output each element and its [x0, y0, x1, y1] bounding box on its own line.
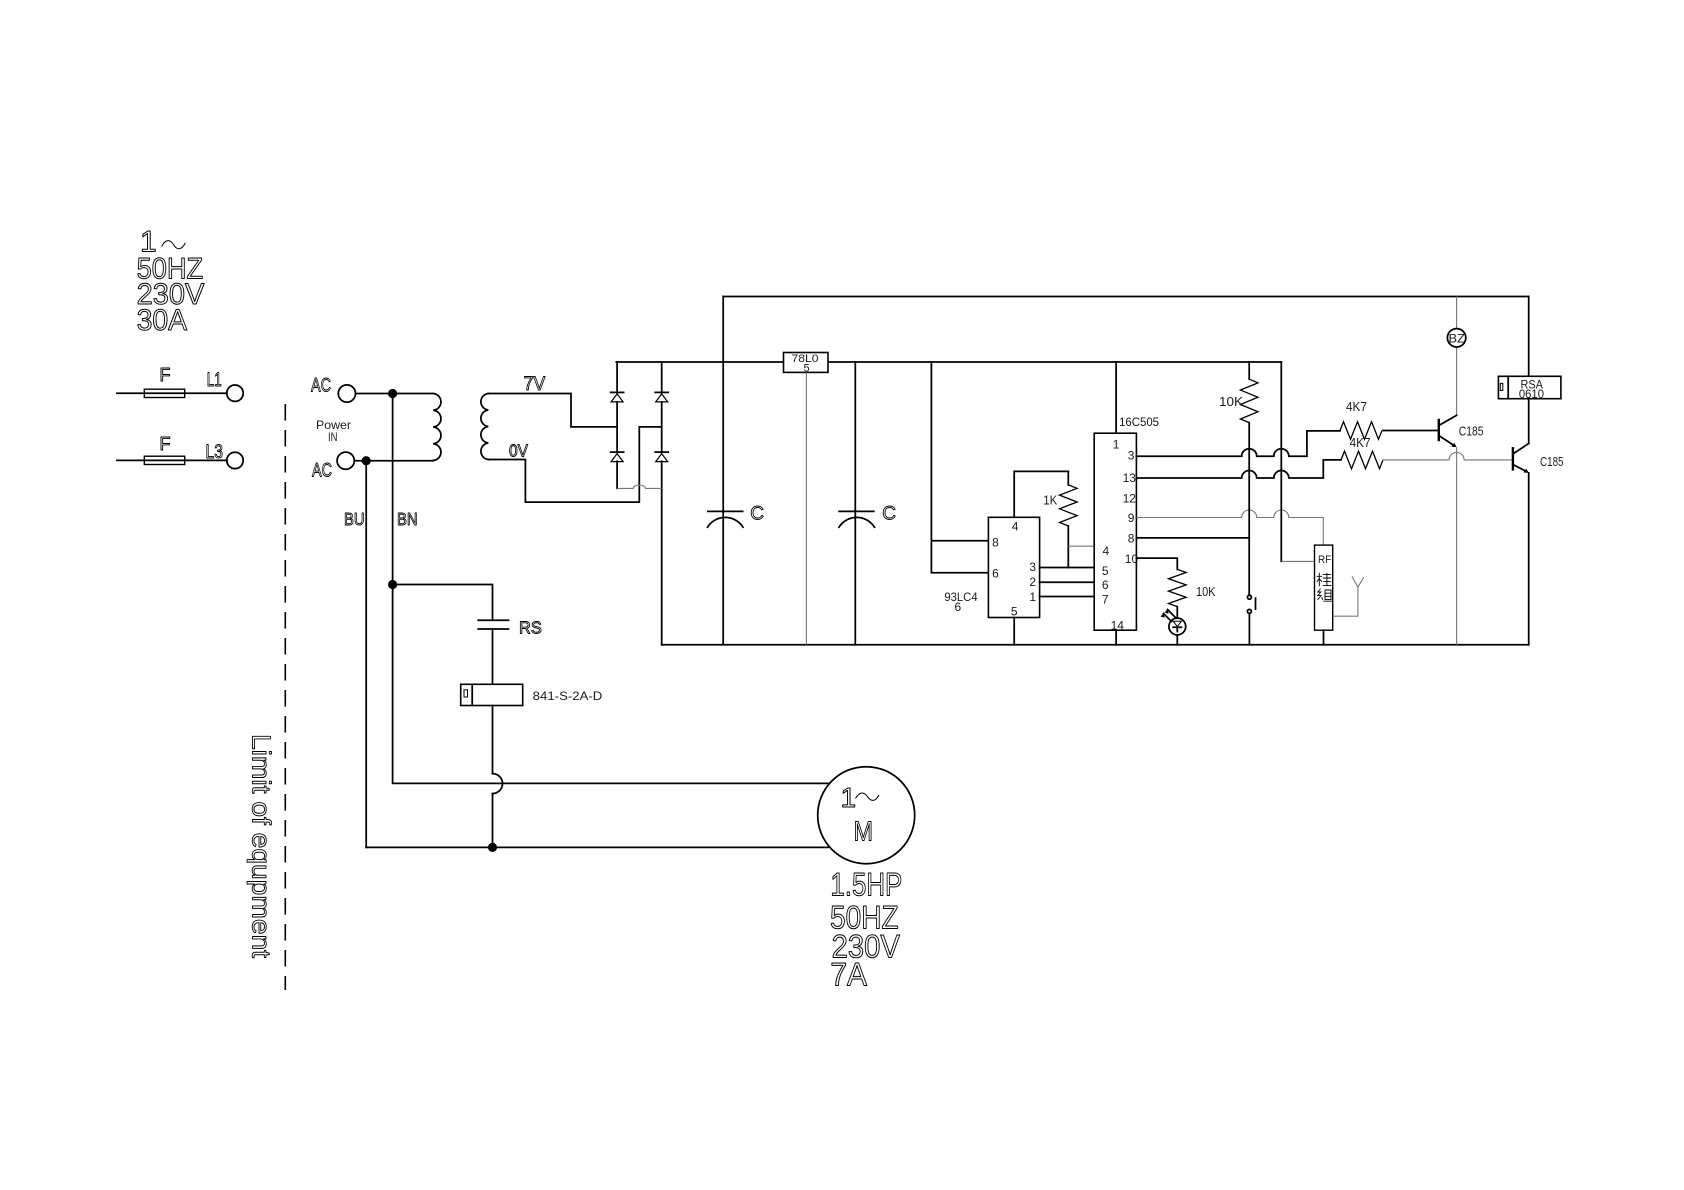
- svg-text:BN: BN: [397, 509, 418, 529]
- motor M: [818, 767, 915, 864]
- svg-text:2: 2: [1029, 575, 1036, 589]
- node junction on BU motor wire: [488, 843, 497, 852]
- fuse F (L3): [117, 434, 227, 465]
- svg-text:0V: 0V: [509, 441, 528, 461]
- transformer T1 secondary: [481, 394, 488, 460]
- wire branch to RS: [393, 585, 493, 621]
- terminal L3: [206, 442, 244, 469]
- wire DC rail 7V unregulated (y=362): [616, 361, 1281, 363]
- wire 16C505 pin13 to 4K7 R4: [1136, 460, 1341, 478]
- wire BU riser: [365, 461, 367, 848]
- svg-text:0610: 0610: [1519, 389, 1544, 401]
- wire VCC to 93LC46: [931, 362, 988, 573]
- terminal L1: [207, 370, 243, 401]
- svg-text:8: 8: [1128, 532, 1135, 546]
- svg-text:4: 4: [1103, 544, 1110, 558]
- svg-text:4K7: 4K7: [1350, 435, 1371, 450]
- terminal AC (bottom): [312, 452, 354, 481]
- label Power IN: [316, 418, 351, 444]
- svg-text:7: 7: [1102, 592, 1109, 606]
- svg-text:AC: AC: [312, 461, 332, 482]
- svg-text:7V: 7V: [524, 374, 546, 395]
- node junction BN: [388, 389, 397, 398]
- capacitor RS: [478, 618, 542, 638]
- svg-text:1: 1: [841, 782, 857, 813]
- svg-text:RF: RF: [1318, 554, 1331, 566]
- svg-text:5: 5: [1102, 564, 1109, 578]
- buzzer BZ: [1447, 297, 1465, 416]
- terminal AC (top): [311, 375, 356, 402]
- svg-text:10K: 10K: [1219, 394, 1243, 409]
- diode module RSA0610: [1498, 297, 1561, 402]
- svg-text:841-S-2A-D: 841-S-2A-D: [533, 689, 603, 703]
- svg-text:BU: BU: [344, 509, 365, 529]
- transistor Q1 C185: [1439, 415, 1484, 645]
- diode D4: [655, 452, 668, 462]
- svg-text:C185: C185: [1540, 454, 1564, 469]
- diode bridge column right: [661, 362, 663, 645]
- svg-text:6: 6: [992, 567, 999, 581]
- svg-text:RS: RS: [519, 618, 542, 638]
- svg-text:3: 3: [1029, 560, 1036, 574]
- RF module: [1315, 545, 1333, 645]
- wire BN riser: [392, 394, 394, 585]
- wire bridge minus link with hop: [617, 485, 662, 488]
- svg-text:C: C: [750, 504, 764, 525]
- svg-text:BZ: BZ: [1449, 333, 1465, 345]
- svg-text:L1: L1: [207, 370, 222, 391]
- resistor 1K: [1043, 471, 1077, 567]
- wire BU to motor lower: [366, 846, 828, 848]
- IC U2 93LC46: [988, 517, 1039, 618]
- svg-text:AC: AC: [311, 375, 331, 396]
- node junction BU: [362, 456, 371, 465]
- wire 93LC46 pin4 to 1K: [1014, 471, 1068, 517]
- diode bridge column left: [616, 362, 618, 488]
- resistor R3 4K7: [1340, 399, 1382, 439]
- wire ground bottom rail: [662, 644, 1529, 646]
- svg-text:12: 12: [1123, 492, 1137, 506]
- svg-text:4: 4: [1012, 520, 1019, 534]
- svg-text:5: 5: [1011, 605, 1018, 619]
- svg-text:M: M: [854, 816, 874, 847]
- wire AC top to transformer: [356, 393, 434, 395]
- svg-text:F: F: [160, 434, 171, 454]
- wire left outer vertical: [722, 297, 724, 645]
- svg-text:7A: 7A: [830, 957, 867, 993]
- svg-text:8: 8: [992, 535, 999, 549]
- svg-text:C: C: [882, 504, 896, 525]
- wire top rail: [723, 296, 1528, 298]
- LED D5: [1161, 607, 1186, 645]
- svg-text:Limit of equpment: Limit of equpment: [247, 734, 277, 959]
- wire 93LC46 pin2 to 16C505 pin6: [1040, 581, 1095, 583]
- supply spec text block top-left: [137, 226, 205, 338]
- wire 1K to 16C505 pin4: [1068, 545, 1094, 547]
- svg-text:1: 1: [1029, 590, 1036, 604]
- relay 841-S-2A-D: [461, 684, 603, 705]
- wire 93LC46 pin3 to 16C505 pin5: [1040, 567, 1095, 569]
- svg-text:6: 6: [955, 600, 962, 614]
- limit of equipment boundary (dashed): [284, 404, 286, 990]
- svg-text:13: 13: [1123, 471, 1137, 485]
- transistor Q2 C185: [1513, 399, 1564, 645]
- wire RS to relay: [492, 629, 494, 684]
- wire AC bottom to transformer: [354, 460, 433, 462]
- diode D1: [611, 392, 624, 402]
- wire 16C505 pin10 to 10K R5: [1136, 558, 1177, 569]
- motor spec text: [830, 867, 902, 993]
- svg-text:9: 9: [1128, 511, 1135, 525]
- wire 93LC46 pin5 to ground: [1013, 618, 1015, 645]
- wire 16C505 pin8 to 10K/switch: [1136, 537, 1249, 539]
- resistor R4 4K7: [1341, 435, 1383, 469]
- svg-text:16C505: 16C505: [1119, 415, 1159, 429]
- svg-text:10K: 10K: [1196, 584, 1216, 599]
- switch S1: [1247, 595, 1255, 645]
- svg-text:30A: 30A: [137, 304, 188, 337]
- wire R4 to Q2 base with hop: [1382, 452, 1513, 459]
- wire BN to motor upper: [393, 585, 828, 784]
- fuse F (L1): [117, 365, 227, 398]
- resistor R2 10K pull-up: [1219, 362, 1258, 595]
- wire 16C505 pin1 to rail: [1115, 362, 1117, 433]
- wire relay to motor line with hop: [492, 706, 494, 774]
- node junction relay branch: [388, 580, 397, 589]
- svg-text:1.5HP: 1.5HP: [830, 867, 902, 903]
- wire 16C505 pin9 to RF module: [1136, 510, 1323, 545]
- wire 93LC46 pin1 to 16C505 pin7: [1040, 596, 1095, 598]
- svg-text:C185: C185: [1459, 423, 1484, 438]
- diode D2: [655, 392, 668, 402]
- wire 16C505 pin14 to ground: [1115, 630, 1117, 645]
- svg-text:14: 14: [1111, 619, 1125, 633]
- wire rail to RF module vcc: [1280, 362, 1282, 561]
- svg-text:4K7: 4K7: [1346, 399, 1367, 414]
- capacitor C1: [708, 504, 765, 528]
- svg-text:1: 1: [1113, 438, 1120, 452]
- svg-text:L3: L3: [206, 442, 224, 463]
- resistor R5 10K: [1169, 569, 1216, 606]
- svg-text:IN: IN: [328, 430, 338, 444]
- svg-text:6: 6: [1102, 578, 1109, 592]
- regulator 78L05: [784, 353, 829, 645]
- svg-text:F: F: [160, 365, 171, 385]
- wire 16C505 pin3 to 4K7 R3: [1136, 431, 1340, 456]
- diode D3: [611, 452, 624, 462]
- transformer T1 primary: [433, 394, 441, 461]
- antenna: [1333, 577, 1364, 617]
- wire R3 to Q1 base: [1383, 430, 1439, 432]
- IC U1 16C505: [1094, 433, 1138, 632]
- svg-text:1K: 1K: [1043, 494, 1058, 508]
- capacitor C2: [839, 362, 896, 645]
- wire 7V to bridge: [488, 394, 617, 427]
- svg-text:3: 3: [1128, 449, 1135, 463]
- wire 0V to bridge: [488, 427, 661, 502]
